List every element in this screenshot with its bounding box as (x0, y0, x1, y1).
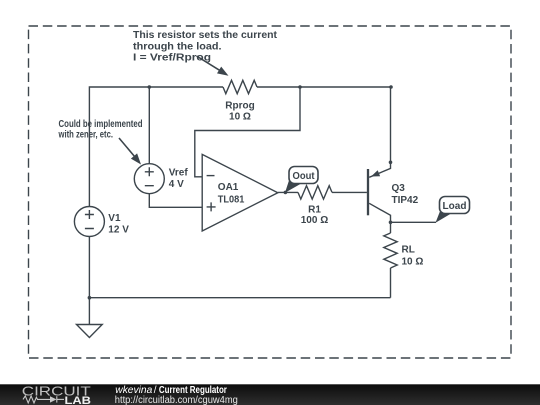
wire RL bottom (390, 268, 392, 298)
svg-text:12 V: 12 V (108, 224, 129, 235)
node dot emitter (389, 161, 393, 165)
footer logo resistor-diode glyph (23, 396, 64, 403)
ground (77, 325, 103, 338)
transistor Q3 collector lead (369, 203, 390, 222)
svg-text:http://circuitlab.com/cguw4mg: http://circuitlab.com/cguw4mg (115, 395, 238, 405)
svg-text:with zener, etc.: with zener, etc. (58, 130, 113, 141)
svg-text:Q3: Q3 (392, 183, 406, 194)
wire V1 bottom (88, 237, 90, 298)
transistor Q3 emitter lead (369, 162, 390, 177)
node dot emitter rail (389, 85, 393, 89)
svg-text:V1: V1 (108, 213, 121, 224)
voltage source Vref (134, 164, 164, 194)
footer bar (0, 384, 540, 405)
svg-text:through the load.: through the load. (133, 41, 222, 52)
annotation arrow to Vref (119, 138, 141, 165)
node dot ground (88, 296, 92, 300)
node dot collector (389, 221, 393, 225)
wire feedback loop (195, 87, 300, 177)
op-amp OA1 (202, 154, 278, 231)
wire collector to RL (390, 222, 392, 233)
svg-text:Could be implemented: Could be implemented (59, 119, 143, 130)
svg-text:Rprog: Rprog (225, 101, 254, 112)
svg-text:Vref: Vref (169, 167, 189, 178)
svg-text:This resistor sets the current: This resistor sets the current (133, 30, 278, 41)
wire V1 top to top rail (89, 87, 223, 207)
labels (108, 101, 423, 268)
svg-text:RL: RL (402, 245, 415, 256)
wire top rail right (257, 86, 391, 88)
svg-text:4 V: 4 V (169, 179, 184, 190)
svg-text:TL081: TL081 (218, 194, 245, 205)
net flag Load (436, 197, 470, 223)
wire ground stub (88, 298, 90, 325)
node dot Vref branch (148, 85, 152, 89)
wire collector to Load (391, 221, 437, 223)
annotation: this resistor sets the current (133, 30, 278, 64)
transistor Q3 base bar (367, 169, 369, 215)
transistor Q3 emitter arrow (371, 170, 380, 176)
svg-text:TIP42: TIP42 (392, 195, 419, 206)
annotation: could be implemented with zener (58, 119, 143, 141)
svg-text:OA1: OA1 (218, 182, 239, 193)
resistor RL (384, 233, 397, 268)
wire bottom rail (89, 297, 390, 299)
svg-text:R1: R1 (308, 205, 321, 216)
resistor Rprog (223, 80, 257, 93)
resistor R1 (298, 186, 332, 199)
wire op-amp output (278, 191, 298, 193)
node dot feedback (298, 85, 302, 89)
wire R1 to base (332, 191, 367, 193)
wire Vref to op-amp plus (149, 194, 202, 208)
voltage source V1 (74, 207, 104, 237)
svg-text:10 Ω: 10 Ω (402, 257, 424, 268)
annotation arrow to Rprog (197, 56, 229, 76)
svg-text:LAB: LAB (65, 395, 92, 405)
wire emitter up (390, 87, 392, 162)
svg-text:10 Ω: 10 Ω (229, 111, 251, 122)
node dot op-amp output (284, 191, 288, 195)
schematic dashed border (29, 26, 512, 358)
svg-text:Load: Load (443, 201, 467, 212)
svg-text:100 Ω: 100 Ω (301, 215, 328, 226)
wire Vref branch (148, 87, 150, 164)
svg-text:Oout: Oout (293, 171, 316, 182)
net flag Oout (285, 167, 318, 193)
